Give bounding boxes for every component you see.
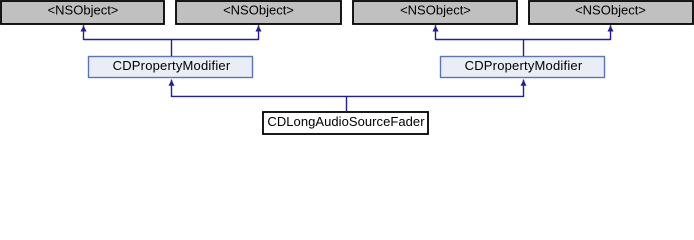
svg-text:CDLongAudioSourceFader: CDLongAudioSourceFader <box>267 114 425 129</box>
inheritance arrowhead into CDPropertyModifier right <box>521 81 526 86</box>
wire: shaft up to NSObject #2 <box>258 25 260 40</box>
svg-text:CDPropertyModifier: CDPropertyModifier <box>113 58 231 73</box>
svg-text:<NSObject>: <NSObject> <box>223 2 294 17</box>
wire: right CDPropertyModifier up-stub <box>523 40 525 57</box>
class box <NSObject> #3 <box>353 1 517 24</box>
wire: shaft up to NSObject #1 <box>83 25 85 40</box>
class box CDPropertyModifier right <box>441 57 605 78</box>
wire: left CDPropertyModifier up-stub <box>171 40 173 57</box>
wire: shaft up to CDPropertyModifier right <box>523 80 525 98</box>
wire: CDLongAudioSourceFader up-stub <box>346 96 348 112</box>
svg-text:<NSObject>: <NSObject> <box>575 2 646 17</box>
inheritance arrowhead into NSObject #2 <box>256 26 261 31</box>
wire: upper-left horizontal connector <box>84 39 259 41</box>
wire: shaft up to NSObject #4 <box>610 25 612 40</box>
wire: upper-right horizontal connector <box>436 39 611 41</box>
inheritance arrowhead into NSObject #3 <box>433 26 438 31</box>
inheritance arrowhead into NSObject #4 <box>608 26 613 31</box>
wire: shaft up to CDPropertyModifier left <box>171 80 173 98</box>
class box <NSObject> #2 <box>176 1 341 24</box>
wire: shaft up to NSObject #3 <box>435 25 437 40</box>
class box <NSObject> #4 <box>529 1 693 24</box>
svg-text:<NSObject>: <NSObject> <box>400 2 471 17</box>
svg-text:CDPropertyModifier: CDPropertyModifier <box>465 58 583 73</box>
class box CDLongAudioSourceFader <box>263 112 428 134</box>
class box CDPropertyModifier left <box>89 57 253 78</box>
inheritance arrowhead into CDPropertyModifier left <box>169 81 174 86</box>
svg-text:<NSObject>: <NSObject> <box>48 2 119 17</box>
class box <NSObject> #1 <box>1 1 164 24</box>
inheritance arrowhead into NSObject #1 <box>81 26 86 31</box>
wire: lower horizontal connector <box>172 95 524 97</box>
